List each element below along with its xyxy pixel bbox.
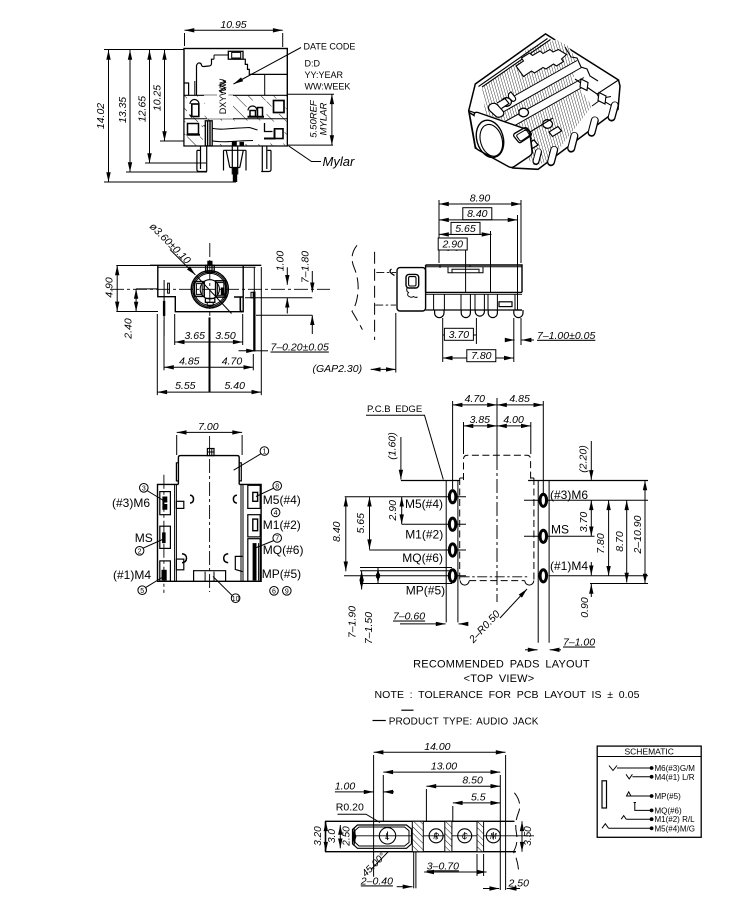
svg-text:MP(#5): MP(#5) (406, 584, 445, 598)
right dims 1.00 / 7-1.80 (245, 267, 312, 334)
section hatch band (185, 95, 287, 145)
svg-text:(1.60): (1.60) (387, 432, 399, 459)
left small bracket (168, 283, 170, 293)
right face edges (575, 79, 619, 109)
svg-text:7–0.20±0.05: 7–0.20±0.05 (271, 342, 329, 354)
svg-text:12.65: 12.65 (137, 96, 149, 122)
svg-text:M1(#2) R/L: M1(#2) R/L (655, 815, 696, 824)
right hanging pin (long) (253, 267, 255, 351)
svg-text:5.5: 5.5 (471, 791, 486, 803)
svg-text:3.70: 3.70 (449, 329, 470, 341)
svg-text:7.80: 7.80 (471, 350, 492, 362)
left ref lines (344, 497, 466, 584)
svg-text:2.90: 2.90 (387, 500, 399, 522)
top tab dark (206, 265, 215, 272)
svg-text:MS: MS (551, 523, 569, 537)
phi leader (170, 250, 195, 275)
hatch boundary top (479, 39, 551, 88)
right rect contact (216, 281, 226, 297)
white cutouts (186, 95, 286, 144)
svg-text:5.55: 5.55 (175, 380, 196, 392)
svg-text:MS: MS (135, 531, 153, 545)
svg-text:7–1.50: 7–1.50 (363, 612, 375, 644)
svg-text:0.90: 0.90 (579, 597, 591, 618)
svg-text:1.00: 1.00 (335, 780, 356, 792)
svg-text:RECOMMENDED PADS LAYOUT: RECOMMENDED PADS LAYOUT (413, 659, 590, 671)
mid band structure (426, 309, 522, 311)
circles R C M (429, 829, 443, 843)
right small bracket (251, 292, 253, 298)
svg-text:5.65: 5.65 (355, 513, 367, 534)
cavity outline (197, 59, 215, 95)
right solid verticals (537, 481, 539, 643)
dim 10.95 top (185, 30, 283, 47)
svg-text:4.85: 4.85 (509, 393, 530, 405)
side pegs (580, 79, 588, 91)
body outline (178, 456, 239, 485)
svg-text:10: 10 (232, 596, 240, 603)
pad labels (402, 488, 588, 598)
svg-text:10.25: 10.25 (152, 85, 164, 111)
svg-text:M5(#4)M/G: M5(#4)M/G (655, 824, 695, 833)
svg-text:M6(#3)G/M: M6(#3)G/M (655, 764, 696, 773)
svg-text:4: 4 (274, 510, 278, 517)
svg-text:MYLAR: MYLAR (319, 102, 330, 135)
inner verticals left (174, 484, 176, 581)
bottom center pin (209, 317, 211, 392)
svg-text:4.90: 4.90 (104, 277, 116, 298)
left wing boxes (160, 492, 171, 515)
circle center ticks (388, 832, 494, 841)
body top flange (150, 264, 261, 266)
svg-text:7.00: 7.00 (198, 421, 219, 433)
circled numbers + leaders (234, 454, 261, 470)
GAP dim arrows (371, 313, 396, 373)
right ref lines (524, 500, 648, 583)
svg-text:7: 7 (275, 536, 279, 543)
svg-text:M5(#4): M5(#4) (263, 493, 301, 507)
svg-text:(#1)M4: (#1)M4 (550, 559, 588, 573)
circles (191, 271, 228, 308)
diag slash (197, 277, 232, 314)
svg-text:9: 9 (285, 588, 289, 595)
right white region boundary steps (565, 47, 598, 81)
jack ellipse (472, 117, 508, 161)
svg-text:3.85: 3.85 (470, 414, 491, 426)
center pin pair in band (205, 121, 212, 146)
svg-text:7–0.60: 7–0.60 (393, 611, 425, 623)
date code leader (234, 48, 302, 85)
svg-text:1: 1 (262, 449, 266, 456)
svg-text:13.35: 13.35 (117, 97, 129, 123)
svg-text:(GAP2.30): (GAP2.30) (313, 363, 363, 375)
svg-text:MQ(#6): MQ(#6) (263, 543, 304, 557)
dashed footprint (460, 455, 534, 580)
svg-text:M1(#2): M1(#2) (263, 518, 301, 532)
legs: left (197, 146, 207, 172)
top tab (207, 449, 214, 456)
left dim verticals (346, 437, 402, 590)
left side tabs (176, 501, 183, 508)
svg-text:2–10.90: 2–10.90 (632, 515, 644, 554)
tab hook above barrel (488, 103, 503, 117)
svg-text:8.40: 8.40 (467, 208, 488, 220)
body outline (184, 49, 287, 146)
centerline dashdot upper (376, 271, 396, 273)
svg-text:MQ(#6): MQ(#6) (402, 551, 443, 565)
svg-text:8.70: 8.70 (614, 531, 626, 552)
svg-text:<TOP VIEW>: <TOP VIEW> (464, 673, 535, 685)
3-0.70 (424, 854, 486, 876)
svg-text:(#3)M6: (#3)M6 (550, 488, 588, 502)
rails white strips (496, 61, 582, 114)
contact band2 wavy (204, 126, 258, 131)
right cavity profile (243, 59, 287, 74)
svg-text:MP(#5): MP(#5) (262, 567, 301, 581)
centerlines (110, 243, 330, 316)
svg-text:NOTE : TOLERANCE FOR PCB LAYOU: NOTE : TOLERANCE FOR PCB LAYOUT IS ± 0.0… (375, 689, 640, 701)
dim 7.00 (177, 432, 242, 455)
svg-text:4.85: 4.85 (179, 355, 200, 367)
left solid verticals (445, 481, 447, 623)
svg-text:3.65: 3.65 (184, 330, 205, 342)
svg-text:7.80: 7.80 (595, 533, 607, 554)
right 3.50 + phantom (513, 793, 519, 874)
svg-text:7–1.90: 7–1.90 (347, 606, 359, 638)
svg-text:DATE CODE: DATE CODE (304, 42, 356, 52)
svg-text:D:D: D:D (305, 59, 321, 69)
svg-text:SCHEMATIC: SCHEMATIC (624, 747, 673, 757)
svg-text:1.00: 1.00 (275, 251, 287, 272)
svg-text:YY:YEAR: YY:YEAR (305, 70, 344, 80)
DXYWW vertical (217, 79, 229, 114)
svg-text:5: 5 (140, 588, 144, 595)
svg-text:3.20: 3.20 (313, 826, 324, 846)
svg-text:7–1.00: 7–1.00 (563, 637, 595, 649)
45 deg (371, 852, 388, 870)
svg-text:8.50: 8.50 (462, 775, 483, 787)
band (325, 820, 515, 822)
svg-text:10.95: 10.95 (220, 19, 246, 31)
centerlines (209, 436, 211, 592)
svg-text:2–0.40: 2–0.40 (360, 875, 393, 887)
svg-text:13.00: 13.00 (431, 761, 457, 773)
svg-text:2: 2 (138, 548, 142, 555)
inner hooks (233, 495, 237, 503)
silhouette (469, 34, 620, 169)
center pin assembly (224, 150, 247, 170)
svg-text:7–1.00±0.05: 7–1.00±0.05 (537, 330, 595, 342)
bottom tab (205, 298, 214, 302)
svg-text:MQ(#6): MQ(#6) (655, 806, 682, 815)
dim 14.02 left (104, 50, 236, 183)
top dims (453, 398, 544, 602)
right dim verticals (591, 441, 645, 597)
front face (469, 112, 532, 167)
svg-text:2.50: 2.50 (342, 826, 353, 847)
svg-text:4.70: 4.70 (222, 355, 243, 367)
phantom wavy + dashed pcb line (352, 245, 362, 329)
barrel block top face (469, 111, 553, 154)
dims bottom (443, 318, 514, 362)
band2 center dark bits (232, 141, 237, 146)
contact band1 right (248, 106, 257, 111)
left bump (176, 463, 178, 481)
7-1.00 callout (505, 318, 534, 345)
svg-text:6: 6 (272, 588, 276, 595)
legs (435, 310, 444, 318)
small square hole (514, 128, 532, 143)
inner verticals right (240, 484, 242, 581)
contact band1 left (190, 100, 199, 105)
bottom tab (194, 571, 226, 582)
svg-text:8.90: 8.90 (470, 193, 491, 205)
left dims 3.20 3.0 2.50 (326, 821, 354, 851)
svg-text:Mylar: Mylar (323, 154, 355, 169)
right wing boxes (248, 485, 260, 508)
barrel (397, 268, 426, 311)
left dims 4.90 / 2.40 (116, 266, 158, 312)
svg-text:3.70: 3.70 (578, 512, 590, 533)
legs: right (261, 146, 271, 172)
svg-text:3: 3 (142, 485, 146, 492)
band2 right step (265, 123, 273, 132)
right leg thick (240, 297, 242, 312)
hatch band (482, 40, 592, 167)
svg-text:14.00: 14.00 (424, 741, 450, 753)
pin nub top-left (390, 269, 395, 276)
svg-text:4.00: 4.00 (503, 414, 524, 426)
dims top (439, 200, 521, 310)
svg-text:M4(#1) L/R: M4(#1) L/R (655, 773, 695, 782)
top dims (335, 752, 506, 890)
svg-text:3.50: 3.50 (215, 330, 236, 342)
dashdot row (460, 576, 528, 578)
7-0.20 callout (239, 350, 257, 352)
svg-text:8.40: 8.40 (331, 521, 343, 542)
svg-text:M5(#4): M5(#4) (405, 497, 443, 511)
pads left (448, 489, 458, 583)
svg-text:3–0.70: 3–0.70 (427, 860, 459, 872)
contact band2 left (188, 124, 199, 135)
main body (426, 265, 522, 292)
svg-text:WW:WEEK: WW:WEEK (305, 82, 351, 92)
right bump (239, 463, 241, 481)
svg-text:5.65: 5.65 (455, 223, 476, 235)
svg-text:5.40: 5.40 (224, 380, 245, 392)
centerline (352, 835, 534, 837)
bottom dims (157, 267, 261, 395)
svg-text:R0.20: R0.20 (336, 802, 364, 814)
labels (112, 493, 303, 582)
svg-text:PRODUCT TYPE: AUDIO JACK: PRODUCT TYPE: AUDIO JACK (389, 716, 539, 727)
pads right (539, 493, 549, 584)
2.50 bottom (483, 888, 520, 890)
svg-text:8: 8 (275, 483, 279, 490)
svg-text:MP(#5): MP(#5) (655, 792, 682, 801)
rows (602, 766, 652, 829)
top recess (440, 265, 483, 273)
corner box band1 (274, 101, 285, 113)
left hanging pin (163, 280, 165, 336)
svg-text:(2.20): (2.20) (578, 445, 590, 472)
svg-text:M1(#2): M1(#2) (405, 528, 443, 542)
svg-text:P.C.B EDGE: P.C.B EDGE (367, 404, 422, 415)
contacts in hatch (502, 98, 512, 107)
slot below band (413, 852, 415, 889)
body outline (158, 265, 243, 311)
svg-text:2.50: 2.50 (508, 878, 530, 890)
hatched bars (412, 821, 423, 851)
big pad (353, 825, 412, 848)
R0.50 notches (460, 581, 469, 586)
left wing (158, 484, 262, 581)
left rect contact (194, 282, 204, 297)
svg-text:14.02: 14.02 (95, 103, 107, 129)
svg-text:4.70: 4.70 (465, 393, 486, 405)
svg-text:2.40: 2.40 (123, 318, 135, 340)
svg-text:7–1.80: 7–1.80 (300, 251, 312, 283)
svg-text:(#1)M4: (#1)M4 (113, 568, 151, 582)
top tab (228, 51, 243, 59)
2-R0.50 (500, 589, 527, 618)
svg-text:2.90: 2.90 (441, 239, 463, 251)
legs (536, 106, 615, 163)
top face cavity island (516, 50, 567, 77)
svg-text:3.50: 3.50 (523, 826, 534, 846)
left edge bracket (184, 83, 189, 95)
svg-text:(#3)M6: (#3)M6 (112, 496, 150, 510)
svg-text:3.0: 3.0 (327, 829, 338, 843)
